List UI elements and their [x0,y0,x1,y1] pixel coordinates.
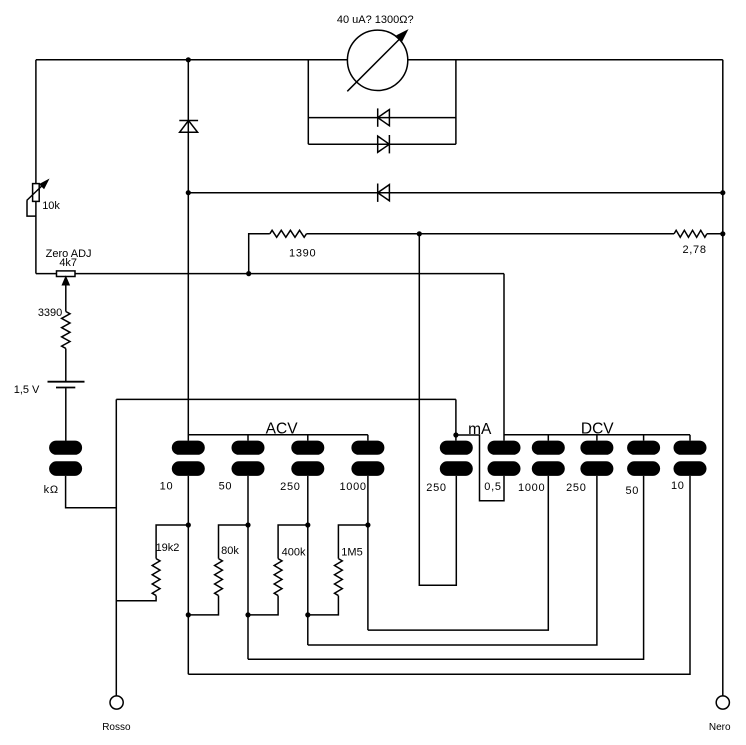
diode D4 pointing left on y=192.4 [377,184,379,202]
svg-text:1M5: 1M5 [341,547,362,559]
wire column below ACV 10 [187,476,189,674]
resistor R 1M5 [338,525,368,559]
meter M1 40uA moving-coil [347,30,407,90]
wire vertical x=455.6 [455,60,457,144]
diode D2 pointing left on y=117.3 [377,108,379,126]
diode D1 vertical at x=188 (cathode up) [179,120,198,122]
switch contact DCV 50 [627,441,660,455]
wire column below ACV 1000 [367,476,369,630]
wire column below ACV 50 [247,476,249,659]
terminal Rosso [110,696,123,709]
wire kOhm bottom bend [66,476,117,508]
junction node at (722.5,233.5) [720,231,725,236]
svg-text:10: 10 [160,481,174,493]
junction node at (247.7,614.6) [245,612,250,617]
switch contact ACV 1000 [351,441,384,455]
svg-text:250: 250 [280,481,300,493]
svg-text:40 uA? 1300Ω?: 40 uA? 1300Ω? [337,14,414,26]
battery BT1 1,5V [48,381,85,383]
svg-text:Rosso: Rosso [102,722,131,733]
wire y=233.5 middle [306,233,674,235]
svg-text:1000: 1000 [339,481,366,493]
wire column below ACV 250 [307,476,309,645]
junction node at (188,614.6) [186,612,191,617]
wire link ACV250-DCV250 [308,476,597,645]
wire left rail x=35.6 lower [35,201,37,273]
resistor R 3390 [62,312,70,349]
wire link ACV1000-DCV1000 [368,476,548,630]
potentiometer R 10k rheostat [33,184,40,202]
svg-text:19k2: 19k2 [156,542,180,554]
resistor R 19k2 [156,525,188,559]
wire zero-adj line y=273.3 [36,273,504,275]
wire mA 250 bottom to 1390 node U [419,234,456,586]
wire vertical x=308 [307,60,309,144]
svg-text:400k: 400k [282,547,306,559]
wire top rail y=59.5 left of meter [36,59,348,61]
junction node at (367.6,524.7) [365,522,370,527]
wire link ACV50-DCV50 [248,476,644,659]
switch contact DCV 1000 [532,441,565,455]
wire link ACV10-DCV10 [188,476,690,674]
svg-text:2,78: 2,78 [682,244,706,256]
svg-text:1390: 1390 [289,248,316,260]
svg-text:50: 50 [625,485,639,497]
wire diode row y=117.3 [308,117,456,119]
wire mA top drop x=455.6 [455,399,457,440]
wire ACV group top line [188,434,368,436]
wire DCV group top line [504,434,690,436]
switch contact mA 0,5 [488,441,521,455]
svg-text:80k: 80k [221,545,239,557]
wire y=192.4 from x=188 to right rail [188,192,723,194]
switch contact ACV 10 [172,441,205,455]
switch contact DCV 10 [674,441,707,455]
svg-text:ACV: ACV [266,421,299,438]
wire column x=188 from top rail [187,60,189,441]
wire mA link to 0,5 bottom contact [456,435,504,501]
junction node at (307.5,524.7) [305,522,310,527]
junction node at (418.5,233.5) [417,231,422,236]
wire diode row y=143.9 [308,143,456,145]
svg-text:4k7: 4k7 [59,257,77,269]
junction node at (188,59.5) [186,57,191,62]
resistor R 80k [219,525,249,559]
potentiometer 4k7 wiper arrow [65,284,67,311]
svg-text:250: 250 [426,482,446,494]
junction node at (188,192.4) [186,190,191,195]
svg-text:10: 10 [671,480,685,492]
svg-text:1000: 1000 [518,482,545,494]
wire right rail x=722.5 [722,60,724,696]
switch contact ACV 250 [291,441,324,455]
junction node at (722.5,192.4) [720,190,725,195]
wire battery bottom lead to kOhm contact [65,388,67,441]
wire rosso rail x=116 [115,399,117,696]
wire 0,5 top contact feed from zero-adj line [503,274,505,441]
junction node at (188,524.7) [186,522,191,527]
switch contact ACV 50 [232,441,265,455]
svg-text:0,5: 0,5 [484,481,501,493]
junction node at (455.6,434.7) [453,432,458,437]
svg-text:Nero: Nero [709,722,731,733]
wire y=399.1 rosso feed [116,398,456,400]
switch contact mA 250 [440,441,473,455]
wire y=233.5 right stub [707,233,723,235]
svg-text:250: 250 [566,482,586,494]
resistor R 2,78 [674,230,707,237]
resistor R 400k [278,525,308,559]
junction node at (307.5,614.6) [305,612,310,617]
wire left rail x=35.6 upper [35,60,37,184]
switch contact kOhm [49,441,82,455]
junction node at (247.7,524.7) [245,522,250,527]
svg-text:3390: 3390 [38,307,62,319]
svg-text:1,5 V: 1,5 V [14,384,40,396]
diode D3 pointing right on y=143.9 [388,135,390,153]
wire battery top lead [65,349,67,382]
svg-text:50: 50 [219,481,233,493]
svg-text:10k: 10k [42,200,60,212]
svg-text:kΩ: kΩ [44,484,59,496]
switch contact DCV 250 [580,441,613,455]
terminal Nero [716,696,729,709]
potentiometer R 4k7 Zero ADJ body [57,271,76,277]
junction node at (248.4,273.3) [246,271,251,276]
resistor R 1390 [270,230,307,237]
wire top rail y=59.5 right of meter [408,59,723,61]
wire 1390 branch left drop [249,234,270,274]
